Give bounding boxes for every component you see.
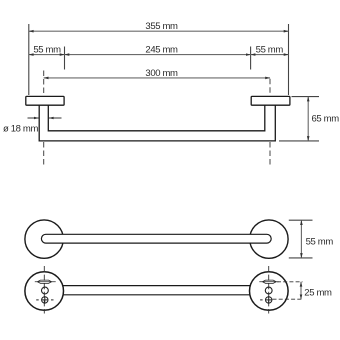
dimension line 65 mm (vertical)	[307, 97, 309, 141]
left screw	[36, 296, 53, 303]
left mounting plate circle	[25, 272, 64, 311]
65mm bottom extension line	[279, 140, 319, 142]
dimension line 55 mm vertical	[300, 220, 302, 258]
svg-text:55 mm: 55 mm	[306, 236, 334, 247]
bar (bottom view, two lines)	[60, 285, 253, 287]
bar outline (top view U channel)	[39, 105, 275, 141]
65mm top extension line	[292, 96, 320, 98]
dimension line 300 mm	[44, 77, 270, 79]
tick left (55/245 boundary)	[64, 47, 66, 70]
dimension line 245 mm	[65, 54, 251, 56]
ø18 arrow right	[49, 117, 62, 119]
dimension line 55 mm left	[29, 54, 65, 56]
flange left (wall plate, edge view)	[26, 96, 64, 105]
25mm top extension (dashed)	[277, 281, 303, 283]
dimension line 25 mm (vertical)	[300, 282, 302, 299]
centerline right post (dashed)	[269, 79, 271, 166]
towel bar (front view, rounded ends)	[41, 234, 271, 243]
55mm top extension line	[289, 219, 313, 221]
dimension line 55 mm right	[251, 54, 289, 56]
left rosette circle	[25, 220, 63, 258]
right rosette circle	[250, 220, 288, 258]
svg-text:25 mm: 25 mm	[304, 288, 332, 299]
svg-text:55 mm: 55 mm	[33, 45, 61, 56]
svg-text:65 mm: 65 mm	[312, 114, 340, 125]
25mm bottom extension (dashed)	[273, 298, 303, 300]
ø18 arrow left	[28, 117, 39, 119]
centerline left post (dashed)	[43, 71, 45, 166]
extension line left	[28, 24, 30, 95]
tick right (245/55 boundary)	[250, 47, 252, 70]
left slot midline	[35, 281, 56, 283]
dimension line 355 mm	[29, 30, 289, 32]
right keyhole slot	[263, 280, 277, 283]
right slot midline	[259, 281, 279, 283]
svg-text:245 mm: 245 mm	[145, 45, 178, 56]
right center hole	[265, 287, 272, 294]
svg-text:55 mm: 55 mm	[256, 45, 284, 56]
55mm bottom extension line	[289, 257, 313, 259]
right screw	[260, 296, 272, 303]
right centerline vertical (dashed)	[268, 266, 270, 314]
left center hole	[42, 287, 49, 294]
svg-text:355 mm: 355 mm	[145, 21, 178, 32]
left keyhole slot	[37, 280, 51, 283]
svg-text:ø 18 mm: ø 18 mm	[3, 124, 38, 135]
flange right (wall plate, edge view)	[251, 96, 290, 105]
svg-text:300 mm: 300 mm	[145, 68, 178, 79]
right mounting plate circle	[249, 272, 288, 311]
left centerline vertical (dashed)	[43, 266, 45, 314]
extension line right	[288, 24, 290, 95]
